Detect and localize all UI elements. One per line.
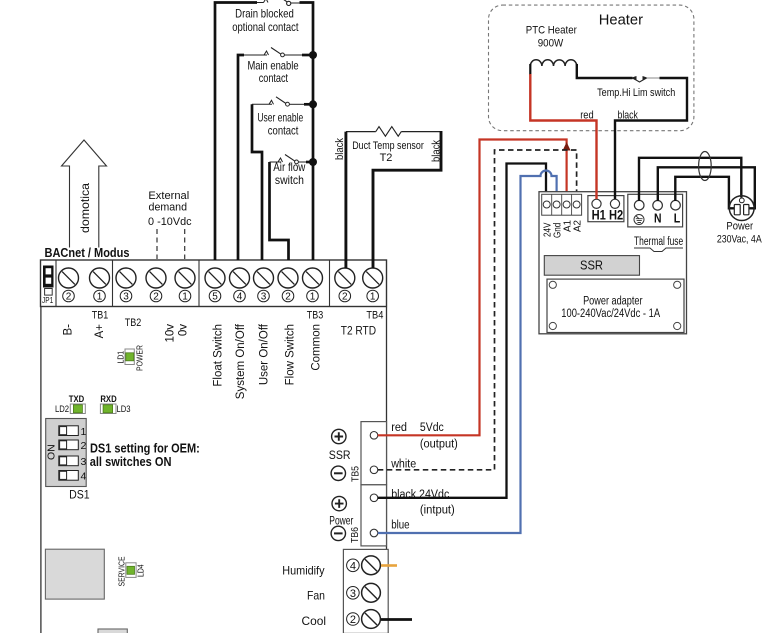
svg-text:L: L [674, 211, 681, 226]
terminal TB2-3 [116, 268, 136, 303]
svg-text:T2 RTD: T2 RTD [341, 323, 377, 337]
svg-text:black 24Vdc: black 24Vdc [391, 489, 449, 501]
wire red heater to H1 [530, 74, 596, 199]
svg-text:2: 2 [342, 292, 348, 303]
svg-text:0 -10Vdc: 0 -10Vdc [148, 216, 192, 228]
wire black thermal switch to H2 [615, 78, 687, 199]
svg-text:domotica: domotica [78, 183, 92, 233]
svg-text:RXD: RXD [100, 394, 116, 405]
svg-text:SERVICE: SERVICE [117, 556, 127, 586]
wire L to plug [675, 177, 734, 209]
wire dashed external demand to TB2-1 [184, 229, 186, 259]
wire earth to plug [639, 158, 741, 201]
terminal TB3-3 [254, 268, 274, 303]
svg-text:External: External [148, 190, 189, 202]
svg-text:2: 2 [285, 292, 291, 303]
contact TB5 pin1 [370, 432, 378, 440]
terminal TB2-2 [146, 268, 166, 303]
svg-text:900W: 900W [538, 38, 564, 50]
svg-text:Power: Power [329, 514, 353, 528]
svg-text:Power: Power [726, 221, 753, 233]
wire dashed external demand to TB2-2 [156, 229, 158, 259]
resistor T2 sensor element [376, 127, 402, 137]
svg-text:Power adapter: Power adapter [583, 295, 643, 307]
svg-text:Thermal fuse: Thermal fuse [634, 236, 683, 248]
svg-text:Float Switch: Float Switch [213, 324, 225, 387]
svg-text:red: red [580, 110, 594, 122]
contact TB6 pin2 [370, 529, 378, 537]
svg-text:0v: 0v [178, 324, 190, 336]
wire duct sensor right lead to TB4-1 [373, 131, 441, 268]
Power - symbol [331, 526, 345, 540]
PCB board outline [41, 306, 387, 633]
power adapter unit box [539, 192, 687, 334]
svg-text:LD3: LD3 [116, 404, 130, 415]
svg-text:N: N [654, 211, 662, 226]
svg-text:Temp.Hi Lim switch: Temp.Hi Lim switch [597, 87, 675, 99]
svg-text:ON: ON [46, 444, 58, 460]
wire black TB6+ to 24V [378, 164, 546, 498]
switch drain blocked optional contact [257, 0, 300, 6]
svg-text:1: 1 [370, 292, 376, 303]
LED LD2 TXD [55, 394, 85, 415]
svg-text:User enable: User enable [257, 111, 303, 125]
LED LD4 SERVICE [117, 556, 146, 586]
svg-text:H1 H2: H1 H2 [592, 207, 624, 223]
svg-text:5Vdc: 5Vdc [420, 422, 444, 434]
svg-text:(intput): (intput) [420, 505, 455, 517]
svg-text:Flow Switch: Flow Switch [285, 324, 297, 385]
svg-text:2: 2 [153, 292, 159, 303]
svg-text:B-: B- [63, 324, 75, 336]
wire heater left lead (black stub) [529, 64, 531, 75]
LED LD3 RXD [100, 394, 130, 415]
junction user enable / common [309, 100, 317, 108]
wire TB3-4 to main enable contact [238, 55, 244, 260]
wire red TB5+ to A1 [378, 140, 567, 436]
connector TB5 [361, 422, 387, 485]
svg-text:demand: demand [149, 202, 188, 214]
svg-text:2: 2 [350, 614, 356, 626]
inductor PTC heater element [530, 60, 577, 66]
svg-text:contact: contact [268, 124, 299, 138]
svg-text:A+: A+ [94, 324, 106, 339]
svg-text:5: 5 [212, 292, 218, 303]
svg-text:white: white [390, 459, 416, 471]
svg-text:T2: T2 [380, 152, 393, 164]
svg-text:230Vac, 4A: 230Vac, 4A [717, 234, 762, 246]
svg-text:3: 3 [123, 292, 129, 303]
terminal TB1-1 [90, 268, 110, 303]
wire white (dashed) TB5- to A2 [378, 150, 577, 470]
svg-text:TB3: TB3 [307, 310, 323, 322]
arrow domotica [62, 140, 107, 248]
wire black stub (Cool) [381, 618, 412, 621]
wire TB3-2 to air flow switch [270, 162, 289, 260]
svg-text:Common: Common [311, 324, 323, 371]
Power + symbol [332, 496, 346, 510]
terminal TB1-2 [59, 268, 79, 303]
svg-text:4: 4 [81, 471, 87, 483]
switch main enable contact [244, 48, 302, 57]
wire TB3-3 to user enable contact [252, 104, 262, 260]
wire common bus to TB3-1 [300, 3, 314, 261]
svg-text:4: 4 [350, 560, 356, 572]
svg-text:3: 3 [81, 456, 87, 468]
svg-text:DS1: DS1 [69, 488, 90, 502]
wire blue TB6- to Gnd (hop over black) [378, 171, 557, 534]
svg-text:SSR: SSR [329, 448, 351, 462]
thermal switch Temp.Hi Lim [631, 76, 661, 82]
heater enclosure (dashed) [489, 5, 694, 131]
svg-text:1: 1 [97, 292, 103, 303]
terminal block H1 H2 [588, 196, 624, 223]
svg-text:POWER: POWER [135, 345, 145, 371]
svg-text:3: 3 [350, 588, 356, 600]
relay output strip (Humidify/Fan/Cool) [343, 549, 388, 633]
wire TB3-5 to drain blocked contact [215, 3, 257, 261]
svg-text:TB4: TB4 [366, 310, 383, 322]
DIP switch DS1 [46, 419, 87, 487]
svg-text:A2: A2 [573, 220, 584, 232]
switch air flow [270, 155, 307, 164]
terminal TB3-2 [278, 268, 298, 303]
wire heater right lead to thermal switch [577, 64, 633, 78]
connector TB6 [361, 485, 387, 546]
svg-text:red: red [391, 422, 407, 434]
wire orange stub (Humidify) [381, 564, 397, 567]
svg-text:contact: contact [259, 71, 289, 85]
svg-text:Humidify: Humidify [282, 563, 324, 577]
svg-text:switch: switch [275, 173, 304, 187]
svg-text:JP1: JP1 [42, 296, 54, 305]
svg-text:black: black [334, 138, 346, 160]
junction main enable / common [309, 51, 317, 59]
svg-text:1: 1 [81, 426, 87, 438]
svg-text:LD1: LD1 [116, 351, 126, 364]
thermal fuse symbol [634, 248, 683, 252]
wire stub to common junction [302, 54, 310, 57]
svg-text:TXD: TXD [69, 394, 85, 405]
svg-text:optional contact: optional contact [232, 20, 299, 34]
svg-text:100-240Vac/24Vdc - 1A: 100-240Vac/24Vdc - 1A [561, 308, 660, 320]
terminal block 24V Gnd A1 A2 [542, 194, 582, 215]
duct temp sensor T2 box [346, 131, 441, 133]
svg-text:LD4: LD4 [136, 564, 146, 577]
terminal TB3-1 [303, 268, 323, 303]
wire N to plug [658, 167, 755, 208]
contact TB6 pin1 [370, 494, 378, 502]
wire duct sensor left lead to TB4-2 [344, 132, 347, 268]
svg-text:blue: blue [391, 520, 409, 532]
svg-text:1: 1 [310, 292, 316, 303]
cable sheath ellipse [699, 152, 712, 181]
svg-text:all switches ON: all switches ON [90, 454, 172, 469]
svg-text:SSR: SSR [580, 259, 603, 273]
svg-text:Duct Temp sensor: Duct Temp sensor [352, 140, 424, 152]
svg-text:TB6: TB6 [350, 527, 361, 543]
contact TB5 pin2 [370, 466, 378, 474]
terminal TB3-5 [205, 268, 225, 303]
svg-text:System On/Off: System On/Off [235, 323, 247, 399]
SSR + symbol [332, 429, 346, 443]
svg-text:TB1: TB1 [92, 310, 108, 322]
switch user enable contact [252, 97, 304, 106]
svg-text:LD2: LD2 [55, 404, 69, 415]
terminal TB4-1 [363, 268, 383, 303]
power adapter inner box [547, 279, 684, 332]
junction air flow / common [309, 158, 317, 166]
svg-text:PTC Heater: PTC Heater [526, 25, 577, 37]
svg-text:TB5: TB5 [351, 466, 362, 482]
svg-text:(output): (output) [420, 439, 458, 451]
svg-text:black: black [431, 140, 443, 162]
svg-text:Cool: Cool [302, 614, 327, 628]
svg-text:User On/Off: User On/Off [259, 323, 271, 385]
terminal 3 Fan [347, 583, 381, 602]
gray component block bottom [98, 629, 127, 633]
earth ground symbol [634, 215, 644, 225]
terminal 2 Cool [347, 610, 381, 629]
svg-text:3: 3 [261, 292, 267, 303]
power plug face [729, 196, 754, 221]
terminal TB3-4 [230, 268, 250, 303]
svg-text:4: 4 [237, 292, 243, 303]
svg-text:2: 2 [81, 440, 87, 452]
svg-text:10v: 10v [165, 324, 177, 343]
svg-text:TB2: TB2 [125, 317, 142, 329]
gray component block [45, 549, 104, 599]
SSR - symbol [331, 466, 345, 480]
svg-text:Air flow: Air flow [273, 160, 305, 174]
terminal strip TB1-TB4 body [41, 260, 387, 307]
SSR block [544, 256, 639, 276]
svg-text:Fan: Fan [307, 589, 325, 603]
svg-text:1: 1 [182, 292, 188, 303]
jumper JP1 [42, 266, 54, 306]
terminal 4 Humidify [347, 556, 381, 575]
LED LD1 POWER [116, 345, 145, 371]
terminal block earth N L [628, 194, 683, 227]
svg-text:Heater: Heater [599, 12, 643, 29]
arrowhead on A1 wire [563, 142, 571, 151]
svg-text:Drain blocked: Drain blocked [235, 7, 294, 21]
terminal TB2-1 [175, 268, 195, 303]
terminal TB4-2 [335, 268, 355, 303]
svg-text:black: black [618, 110, 639, 122]
svg-text:2: 2 [66, 292, 72, 303]
